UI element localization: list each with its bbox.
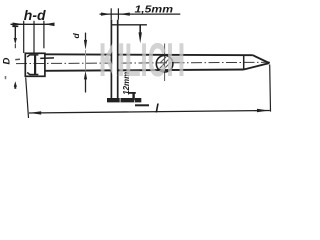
nail point top	[253, 55, 270, 63]
plate (12mm x 1.5mm)	[107, 20, 141, 101]
taper start vertical	[243, 55, 245, 70]
shank bottom line	[45, 70, 244, 71]
D dimension (left)	[12, 26, 18, 88]
small gray blob below D	[5, 76, 7, 79]
head back face extension down to l dimension	[23, 28, 25, 53]
svg-text:1,5mm: 1,5mm	[135, 4, 174, 15]
T-mark near plate bottom	[129, 93, 136, 100]
nail shank	[40, 54, 269, 71]
l dimension (bottom)	[29, 65, 271, 115]
thick bar right of plate bottom	[135, 104, 149, 106]
section circle with crosshair and hatching	[156, 44, 173, 82]
svg-text:d: d	[71, 33, 81, 39]
shank top line	[45, 53, 253, 56]
d dimension (over shank)	[84, 33, 87, 93]
svg-text:h-d: h-d	[24, 7, 46, 23]
nail point bottom	[244, 63, 270, 69]
head inner facet vertical	[34, 55, 36, 75]
plate bottom base bar	[107, 98, 141, 102]
svg-text:D: D	[1, 58, 12, 65]
centerline (nail axis, dash-dot)	[16, 62, 270, 63]
head top chamfer	[27, 55, 38, 57]
nail head	[25, 53, 45, 76]
mystery dash left of head	[15, 58, 20, 60]
h-d dimension line	[11, 21, 55, 53]
hanging arrow with leader (top of plate)	[112, 25, 147, 44]
1,5mm dimension	[100, 8, 181, 19]
head bottom chamfer	[27, 73, 38, 75]
svg-text:KILICH: KILICH	[99, 33, 185, 86]
h-d extension ticks	[23, 21, 25, 28]
head neck facet line	[40, 57, 54, 60]
